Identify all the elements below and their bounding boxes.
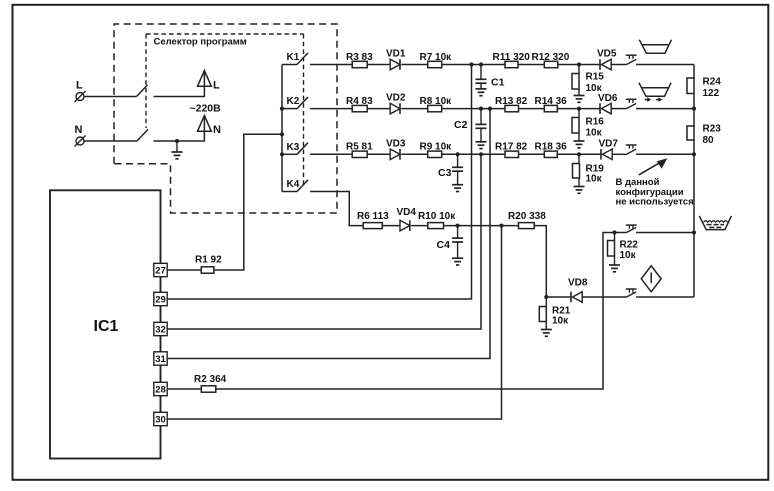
wire VD6 to switch [611,108,626,110]
tub symbol full level [639,40,671,54]
wire R22 row left [615,232,627,234]
pin 28 [154,382,167,395]
svg-text:C3: C3 [438,167,452,179]
svg-text:R9 10к: R9 10к [420,142,453,153]
wire switch to rail [636,232,694,234]
node row3 C3 tap [456,152,460,156]
svg-text:C2: C2 [454,119,468,131]
svg-text:VD8: VD8 [568,278,588,289]
switch K1 [282,64,297,66]
wire row3 node [442,153,505,155]
wire pin32 to row3 [167,154,481,329]
wire row2 node [442,108,505,110]
wire R14 to node [557,108,600,110]
node row4 pin30 tap [499,224,503,228]
wire rail top [693,65,695,79]
resistor R19 [578,154,580,163]
svg-text:R13 82: R13 82 [495,96,528,107]
node rail row3 [692,152,696,156]
resistor R14 [544,105,557,111]
wire R3 to VD1 [367,64,390,66]
annotation arrow [639,161,663,175]
resistor R13 [505,105,519,111]
wire VD3 to R9 [401,153,427,155]
wire K2 output [310,108,352,110]
svg-text:VD3: VD3 [386,138,406,149]
ground R19 [578,178,580,187]
connector pin L [198,71,212,87]
svg-text:R17 82: R17 82 [495,142,528,153]
wire R11-R12 [518,64,544,66]
resistor R21 [545,297,547,307]
node row1 pin29 tap [469,62,473,66]
node N ground junction [175,139,179,143]
diode VD1 [390,59,400,70]
switch level sensor 3 [626,144,637,146]
svg-text:K3: K3 [287,142,300,153]
node K2 junction [280,107,284,111]
svg-text:R8 10к: R8 10к [420,96,453,107]
resistor R8 [428,105,442,111]
svg-text:R1 92: R1 92 [195,255,222,266]
svg-text:R24: R24 [703,77,722,88]
wire K4 output [310,192,363,226]
resistor R2 [167,388,201,390]
svg-text:80: 80 [703,135,715,146]
wire R20 down to VD8 node [534,226,546,297]
ground C4 [457,242,459,258]
wire R5 to VD3 [367,153,390,155]
switch K2 [282,108,297,110]
svg-text:R6 113: R6 113 [357,211,389,222]
svg-text:C4: C4 [437,239,451,251]
wire switch1 to rail [636,64,694,66]
resistor R10 [428,223,444,229]
ground N [176,141,178,152]
wire R12 to node [558,64,600,66]
wire pin30 to row4 [167,226,501,419]
switch K4 [282,191,297,193]
wire pin28 to R22 node [216,233,615,390]
IC U1 IC1 [50,190,161,458]
svg-text:L: L [213,80,220,92]
wire R6 to VD4 [382,225,400,227]
node R1 feed junction [280,132,284,136]
svg-text:28: 28 [155,385,166,396]
svg-text:R10 10к: R10 10к [418,211,456,222]
svg-text:R18 36: R18 36 [535,142,568,153]
ground R22 [614,256,616,265]
svg-text:10к: 10к [586,128,603,139]
tub symbol mid level with drain arrows [639,83,671,97]
svg-text:N: N [75,124,83,136]
terminal L [76,93,84,101]
node rail R22 row [692,230,696,234]
wire VD8 to switch [582,296,626,298]
wire pin31 to row2 [167,109,490,359]
resistor R23 [687,126,694,140]
svg-text:~220В: ~220В [190,103,222,115]
switch SA1 N [137,129,148,141]
capacitor C4 [457,226,459,239]
wire R18 to node [557,153,601,155]
resistor R5 [352,151,367,157]
svg-text:10к: 10к [552,316,569,327]
current source icon [641,266,661,292]
wire K1 output [310,64,352,66]
pin 29 [154,292,167,305]
wire switch to connector L [154,72,205,97]
svg-text:R5 81: R5 81 [346,142,373,153]
resistor R9 [428,151,442,157]
node row2 C2 tap [479,107,483,111]
svg-text:R2 364: R2 364 [194,374,227,385]
wire R1 to K bus [214,134,282,270]
capacitor C1 [480,65,482,80]
resistor R16 [578,109,580,118]
svg-text:VD7: VD7 [599,139,619,150]
switch level sensor 1 [626,54,637,56]
wire switch to rail corner [636,296,694,298]
switch level sensor 2 [626,98,637,100]
terminal N [76,137,84,145]
pin 30 [154,412,167,425]
wire switch to connector N [154,117,205,142]
svg-text:29: 29 [155,295,166,306]
capacitor C3 [457,154,459,167]
wire switch2 to rail [636,108,694,110]
resistor R3 [352,61,367,67]
resistor R7 [428,61,442,67]
switch SA1 L [137,85,148,97]
wire VD4 to R10 [411,225,428,227]
svg-text:122: 122 [703,88,720,99]
switch aux sensor [626,224,637,226]
resistor R24 [687,78,694,94]
resistor R22 [614,233,616,241]
resistor R17 [505,151,519,157]
diode VD5 [599,59,601,70]
switch K3 [282,153,297,155]
svg-text:Селектор программ: Селектор программ [154,37,247,48]
diode VD4 [400,220,410,231]
svg-text:L: L [76,80,83,92]
switch pressure sensor [626,288,637,290]
ground R21 [545,322,547,330]
svg-text:R23: R23 [703,124,722,135]
svg-text:R20 338: R20 338 [508,211,546,222]
node row4 C4 tap [456,224,460,228]
node row1 C1 tap [479,62,483,66]
diode VD3 [390,149,400,160]
resistor R12 [544,61,558,67]
pin 27 [154,263,167,276]
diode VD8 [570,292,572,303]
node row1 R15 tap [577,62,581,66]
ground C3 [457,171,459,185]
svg-text:32: 32 [155,325,166,336]
resistor R18 [544,151,557,157]
wire rail R23 down [693,140,695,154]
resistor R15 [578,65,580,74]
connector pin N [198,116,212,132]
selector inner dashed box [146,33,304,35]
svg-text:R16: R16 [586,117,605,128]
ground R15 [578,89,580,96]
node row2 R16 tap [577,107,581,111]
diode VD7 [600,149,602,160]
wire R4 to VD2 [367,108,390,110]
wire R10 to R20 [444,225,519,227]
diode VD6 [599,103,601,114]
selector outer dashed box [114,24,337,213]
wire pin29 to row1 [167,65,471,300]
ground C2 [480,128,482,142]
node row2 pin31 tap [488,107,492,111]
wire L to switch [85,96,137,98]
resistor R4 [352,105,367,111]
wire VD1 to R7 [401,64,427,66]
svg-text:K4: K4 [287,179,300,190]
svg-text:VD4: VD4 [397,207,417,218]
svg-text:R15: R15 [586,72,605,83]
tub symbol wash level [699,216,731,230]
resistor R11 [505,61,518,67]
wire R24-R23 [693,94,695,127]
wire K3 output [310,153,352,155]
wire rail lower [693,154,695,297]
svg-text:не используется: не используется [616,196,694,207]
ground R16 [578,133,580,141]
node K3 junction [280,152,284,156]
svg-text:K1: K1 [287,52,300,63]
svg-text:N: N [213,124,221,136]
svg-text:31: 31 [155,354,166,365]
resistor R6 [363,223,382,229]
svg-text:30: 30 [155,415,166,426]
svg-text:10к: 10к [586,174,603,185]
wire K bus vertical [281,65,283,192]
svg-text:VD5: VD5 [597,49,617,60]
node VD8 R21 junction [544,295,548,299]
svg-text:R4 83: R4 83 [346,96,373,107]
svg-text:R22: R22 [620,240,639,251]
svg-text:R3 83: R3 83 [346,52,373,63]
svg-text:K2: K2 [287,96,300,107]
svg-text:R11 320: R11 320 [493,52,531,63]
svg-text:VD6: VD6 [598,93,618,104]
diode VD2 [390,103,400,114]
wire R13-R14 [519,108,545,110]
svg-text:10к: 10к [620,250,637,261]
wire N to switch [85,140,138,142]
svg-text:VD2: VD2 [386,93,406,104]
resistor R1 [167,269,201,271]
capacitor C2 [480,109,482,125]
wire VD5 to switch [611,64,626,66]
wire R17-R18 [519,153,545,155]
svg-text:IC1: IC1 [94,318,119,335]
pin 32 [154,322,167,335]
node R22 junction [612,230,616,234]
node rail row2 [692,107,696,111]
node row3 pin32 tap [479,152,483,156]
svg-text:27: 27 [155,266,166,277]
wire node to VD8 [546,296,571,298]
wire VD2 to R8 [401,108,427,110]
pin 31 [154,352,167,365]
svg-text:C1: C1 [491,77,505,89]
svg-text:R7 10к: R7 10к [420,52,453,63]
resistor R20 [519,223,535,229]
wire row1 node [442,64,505,66]
svg-text:VD1: VD1 [386,49,406,60]
svg-text:R14 36: R14 36 [535,96,568,107]
svg-text:R12 320: R12 320 [532,52,570,63]
node row3 R19 tap [577,152,581,156]
ground C1 [480,83,482,89]
wire VD7 to switch [612,153,626,155]
wire switch3 to rail [636,153,694,155]
